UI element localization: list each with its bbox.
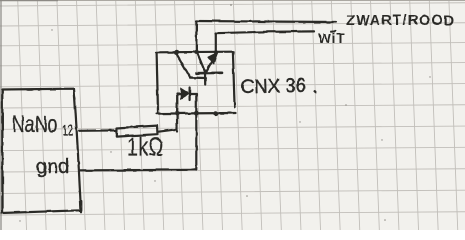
junction dot bottom rail / anode riser bbox=[175, 111, 180, 116]
svg-text:gnd: gnd bbox=[36, 156, 69, 178]
wire ZWART/ROOD riser bbox=[195, 21, 197, 52]
phototransistor Q1 collector diagonal bbox=[176, 54, 190, 78]
scan edge top bbox=[0, 0, 465, 2]
phototransistor Q1 emitter arrowhead bbox=[208, 53, 217, 64]
wire pin 12 to resistor R1 bbox=[79, 129, 116, 132]
svg-text:ZWART/ROOD: ZWART/ROOD bbox=[346, 13, 455, 29]
module NaNo box bbox=[2, 89, 81, 213]
optocoupler CNX36 right side wire bbox=[233, 52, 235, 107]
junction dot bottom rail / emitter bbox=[214, 111, 219, 116]
optocoupler CNX36 left side wire bbox=[157, 53, 158, 114]
phototransistor Q1 lower horizontal bbox=[190, 76, 206, 79]
junction dot top rail / collector diagonal bbox=[174, 50, 179, 55]
scan edge left bbox=[0, 0, 2, 230]
svg-text:NaNo: NaNo bbox=[12, 112, 57, 138]
resistor R1 1k body bbox=[116, 126, 157, 137]
LED D1 cathode lead bbox=[190, 93, 197, 95]
wire ZWART/ROOD horizontal bbox=[196, 21, 336, 22]
phototransistor Q1 base bar bbox=[196, 72, 222, 75]
wire gnd riser to cathode node (vertical x=196) bbox=[195, 94, 197, 170]
LED D1 triangle bbox=[181, 88, 189, 98]
wire WIT horizontal bbox=[216, 31, 315, 33]
svg-text:12: 12 bbox=[63, 121, 74, 139]
label WIT bbox=[318, 31, 346, 46]
junction dot top rail / ZWART riser bbox=[194, 50, 199, 55]
label pin 12 bbox=[63, 121, 74, 139]
phototransistor Q1 emitter stub bbox=[204, 70, 206, 85]
label 1k ohm bbox=[127, 132, 164, 161]
wire riser resistor/LED anode (vertical x=177) bbox=[176, 94, 178, 132]
label ZWART/ROOD bbox=[346, 13, 455, 29]
phototransistor Q1 emitter branch to arrow bbox=[205, 58, 213, 74]
phototransistor Q1 left V branch bbox=[198, 54, 206, 73]
optocoupler CNX36 top rail bbox=[156, 51, 234, 54]
junction dot bottom rail / cathode riser bbox=[194, 111, 199, 116]
junction dot top rail / WIT riser at arrow bbox=[214, 50, 218, 54]
wire WIT riser bbox=[215, 33, 217, 52]
LED D1 cathode bar bbox=[189, 88, 191, 101]
optocoupler CNX36 bottom rail bbox=[157, 112, 237, 115]
wire resistor R1 to LED anode riser bbox=[158, 129, 178, 132]
wire gnd from module bbox=[80, 169, 196, 172]
LED D1 anode lead bbox=[177, 92, 181, 94]
svg-text:WiT: WiT bbox=[318, 31, 346, 46]
label pin gnd bbox=[36, 156, 69, 178]
label CNX 36 bbox=[241, 75, 317, 99]
label NaNo bbox=[12, 112, 57, 138]
svg-text:CNX 36: CNX 36 bbox=[241, 75, 307, 99]
svg-text:1kΩ: 1kΩ bbox=[127, 132, 164, 161]
